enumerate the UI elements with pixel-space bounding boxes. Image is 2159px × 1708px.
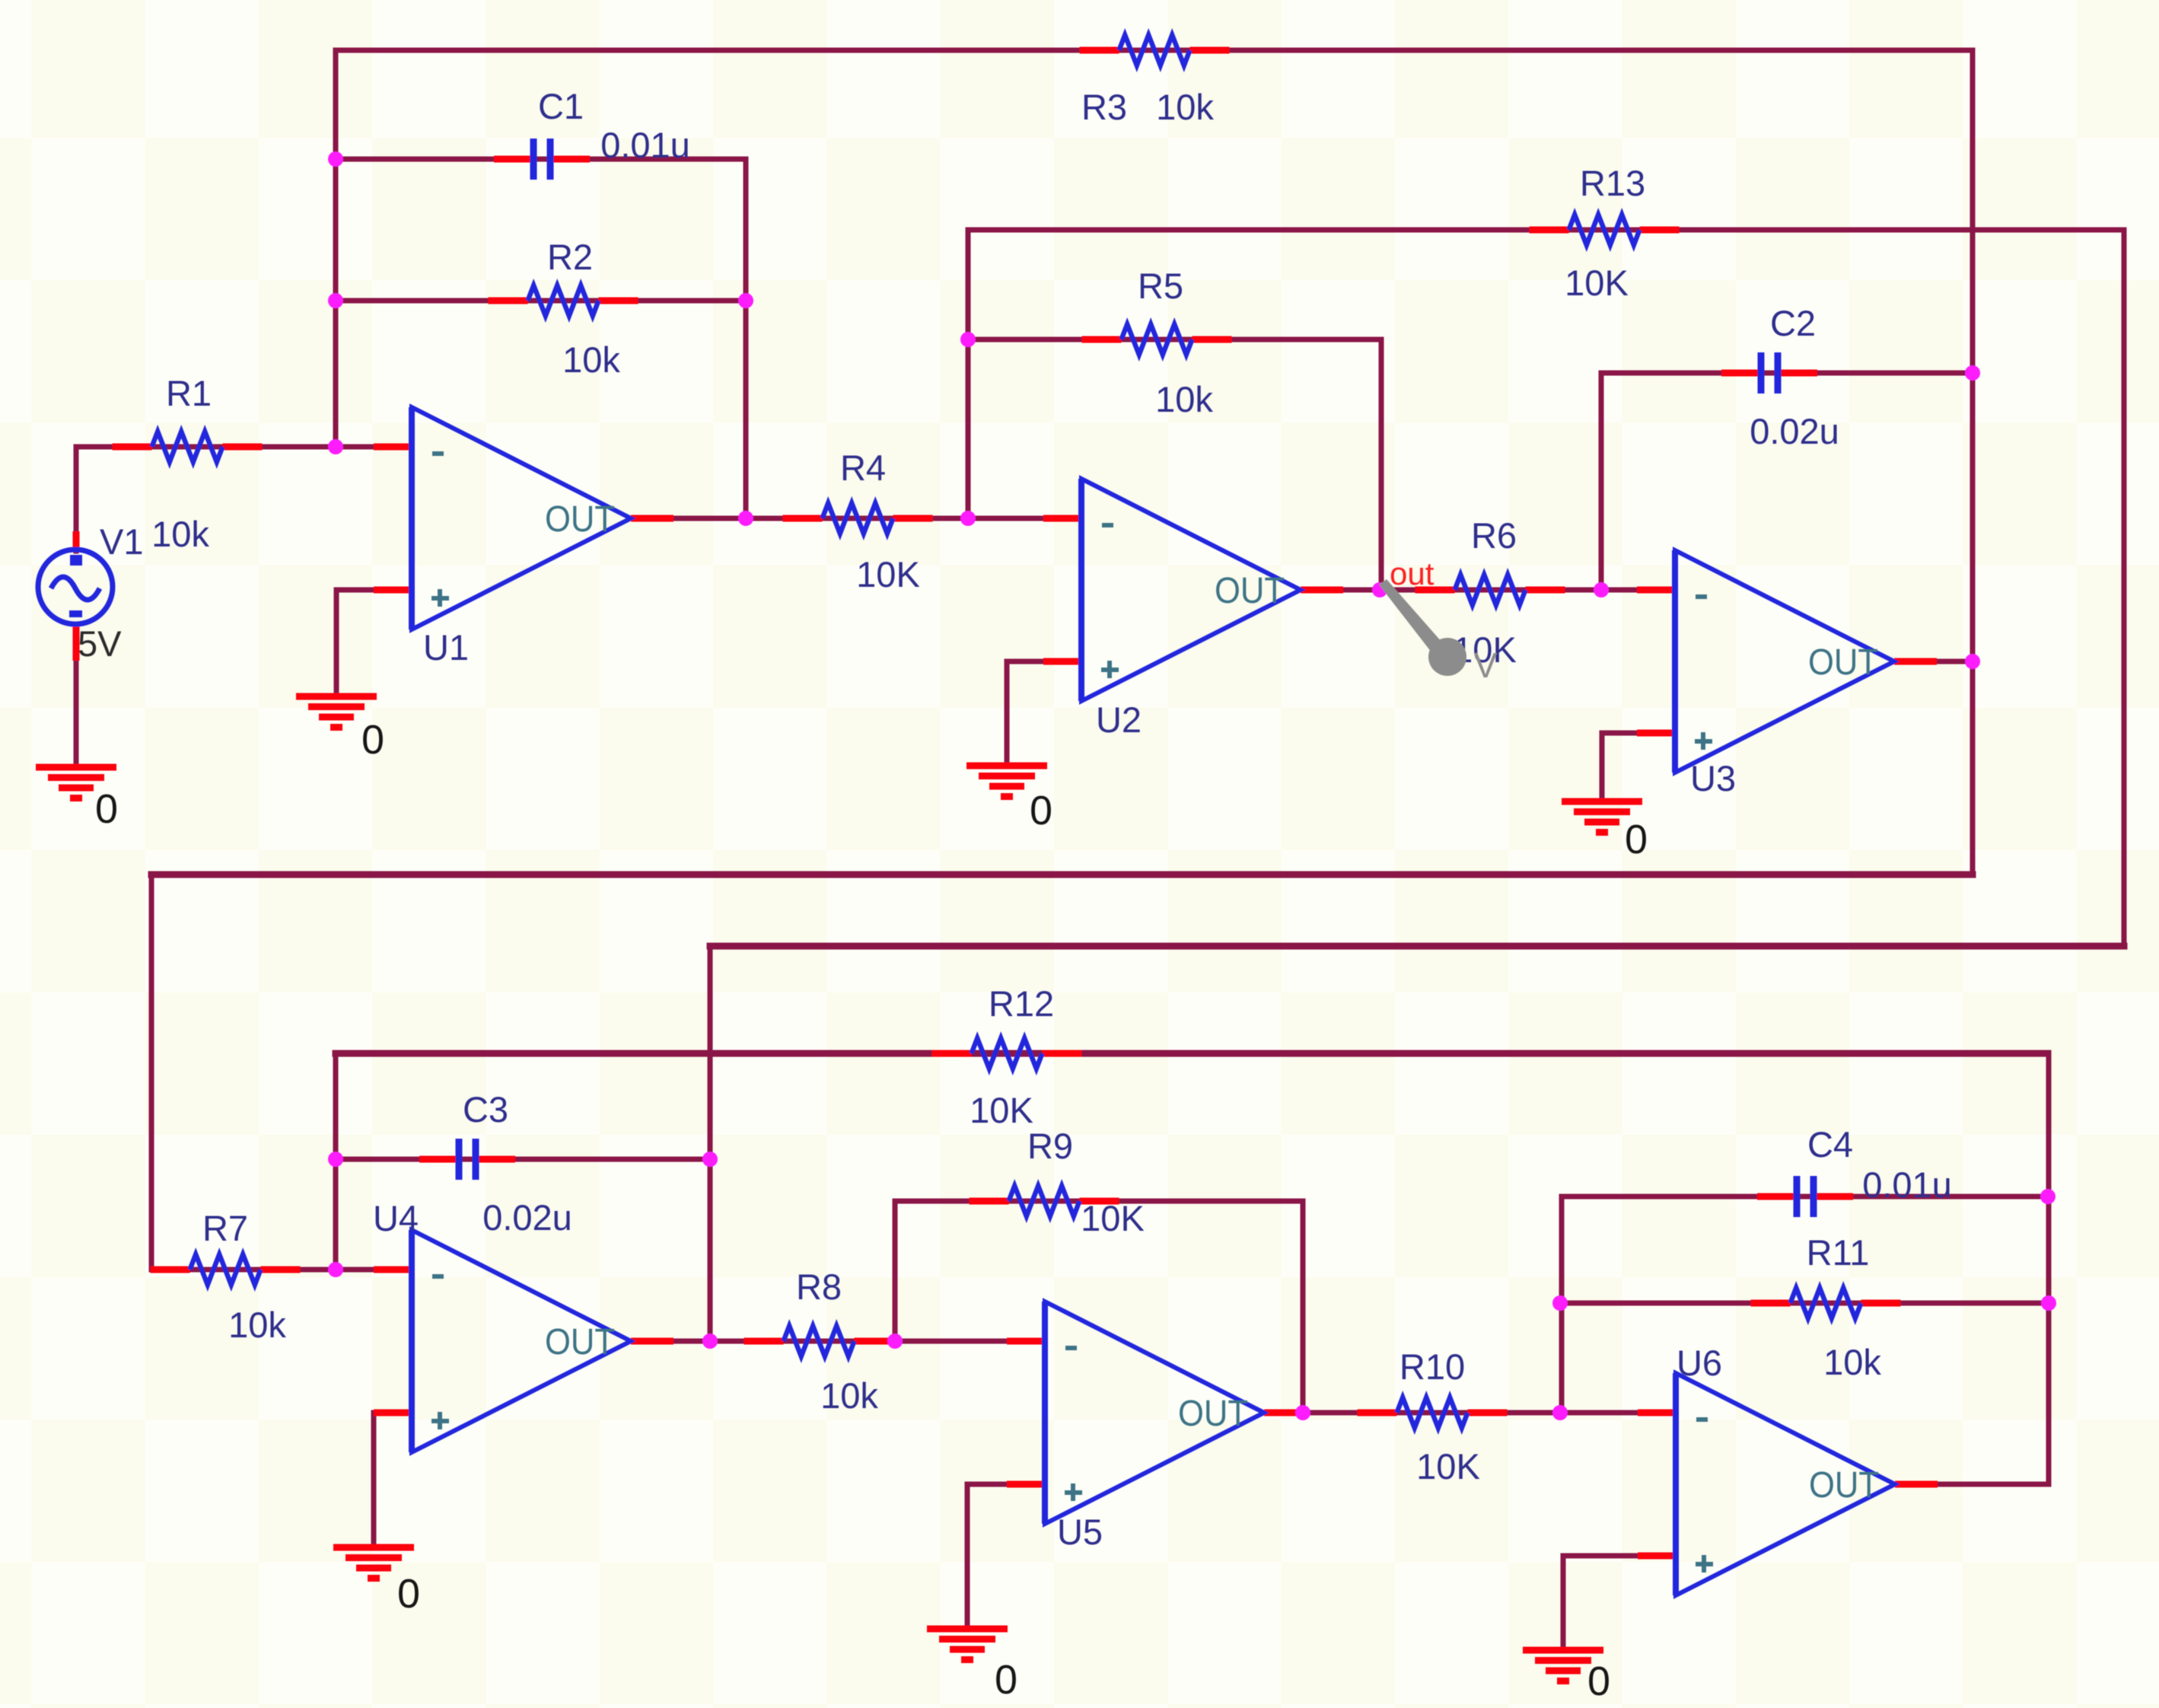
svg-text:C3: C3	[463, 1089, 508, 1130]
svg-text:U2: U2	[1096, 699, 1142, 740]
wire R9 right vertical	[1301, 1201, 1306, 1413]
wire wire1 left vertical	[149, 875, 154, 1270]
wire R9 left vertical	[893, 1201, 898, 1341]
U3 inverting input stub	[1637, 587, 1675, 594]
junction U5 output	[1295, 1405, 1310, 1420]
wire U5 plus wire	[967, 1482, 1045, 1487]
R1 pin 2 stub	[223, 444, 263, 451]
svg-text:0.01u: 0.01u	[600, 125, 690, 165]
V1 plus pin stub	[73, 531, 80, 551]
svg-text:R11: R11	[1807, 1232, 1870, 1273]
C2 pin 2 stub	[1779, 370, 1817, 377]
junction U3 output	[1965, 654, 1980, 669]
U4 non-inverting input stub	[374, 1410, 412, 1416]
R8 pin 2 stub	[855, 1338, 894, 1345]
U2 inverting input stub	[1043, 515, 1081, 522]
R2 pin 1 stub	[489, 298, 528, 304]
resistor R5	[1122, 324, 1193, 355]
svg-text:R5: R5	[1138, 266, 1183, 306]
svg-text:R12: R12	[989, 983, 1054, 1024]
capacitor C3	[459, 1139, 476, 1180]
junction U4 output	[702, 1334, 718, 1349]
wire U4out-R8-U5 wire	[631, 1339, 1045, 1344]
svg-text:R1: R1	[166, 373, 212, 413]
svg-text:10k: 10k	[151, 514, 209, 554]
op-amp U6	[1676, 1373, 1895, 1595]
resistor R3	[1119, 35, 1190, 65]
wire R7 wire	[151, 1267, 412, 1273]
wire U5 gnd stem	[965, 1484, 970, 1629]
U5 inverting input stub	[1007, 1338, 1045, 1345]
wire U1 gnd stem	[334, 590, 339, 696]
wire R1 input wire	[76, 445, 412, 450]
ground gnd U3 plus	[1562, 801, 1642, 833]
R9 pin 1 stub	[970, 1198, 1009, 1205]
U6 non-inverting input stub	[1638, 1553, 1676, 1560]
wire R5 right vertical	[1379, 339, 1384, 590]
R7 pin 2 stub	[261, 1267, 301, 1273]
voltage source V1	[38, 550, 113, 624]
wire U1out-R4-U2 wire	[631, 516, 1081, 521]
wire right vertical C2/U3out	[1970, 50, 1976, 875]
junction R2 right	[738, 293, 753, 308]
svg-text:OUT: OUT	[1215, 571, 1285, 611]
svg-text:R2: R2	[547, 237, 593, 277]
resistor R1	[152, 432, 223, 462]
junction C4 right	[2040, 1189, 2056, 1204]
R9 pin 2 stub	[1080, 1198, 1119, 1205]
wire out wire U2-R6-U3	[1301, 588, 1675, 593]
R2 pin 2 stub	[599, 298, 638, 304]
voltage probe marker at node out	[1379, 579, 1442, 652]
junction R8 right	[887, 1334, 903, 1349]
svg-text:10k: 10k	[1823, 1342, 1881, 1382]
svg-text:U1: U1	[423, 627, 469, 668]
svg-text:C2: C2	[1770, 303, 1816, 343]
capacitor C1	[533, 139, 550, 180]
junction R11 right	[2041, 1295, 2056, 1311]
wire U1 plus wire	[336, 588, 412, 593]
wire wire2 left vertical	[708, 946, 713, 1341]
svg-text:10K: 10K	[1081, 1198, 1145, 1238]
wire U6 gnd stem	[1561, 1556, 1566, 1650]
svg-text:R4: R4	[840, 448, 886, 488]
wire long feedback wire 2	[710, 943, 2124, 950]
capacitor C4	[1797, 1176, 1813, 1217]
ground gnd U1 plus	[296, 696, 377, 728]
svg-text:C4: C4	[1807, 1124, 1853, 1165]
resistor R7	[190, 1254, 261, 1285]
wire U3 plus wire	[1602, 731, 1675, 736]
svg-text:5V: 5V	[78, 623, 122, 664]
V1 minus pin stub	[73, 624, 80, 661]
wire R12 left vertical	[333, 1053, 339, 1270]
svg-text:0: 0	[1587, 1659, 1610, 1704]
U1 inverting input stub	[374, 444, 412, 451]
svg-text:R3: R3	[1081, 87, 1127, 127]
svg-text:R6: R6	[1471, 515, 1517, 556]
svg-text:10k: 10k	[562, 339, 620, 380]
svg-text:C1: C1	[538, 86, 584, 126]
U5 non-inverting input stub	[1007, 1481, 1045, 1488]
resistor R4	[823, 503, 893, 534]
wire C1/R2 right vertical	[744, 159, 749, 518]
C3 pin 2 stub	[477, 1156, 515, 1163]
C1 pin 1 stub	[494, 156, 532, 163]
R5 pin 2 stub	[1193, 336, 1232, 343]
R13 pin 2 stub	[1640, 227, 1680, 234]
svg-text:0.01u: 0.01u	[1862, 1165, 1952, 1205]
junction R1/U1 inverting	[328, 439, 343, 454]
svg-text:10K: 10K	[1565, 263, 1629, 303]
R11 pin 2 stub	[1861, 1300, 1901, 1307]
resistor R10	[1397, 1397, 1468, 1428]
svg-text:V1: V1	[100, 521, 144, 562]
svg-text:10k: 10k	[1155, 379, 1213, 419]
junction R11 left	[1552, 1295, 1568, 1311]
U1 non-inverting input stub	[374, 587, 412, 594]
svg-text:10k: 10k	[1156, 87, 1214, 127]
R1 pin 1 stub	[113, 444, 152, 451]
junction C3 left	[328, 1152, 343, 1167]
U3 output stub	[1894, 658, 1937, 665]
svg-text:R10: R10	[1400, 1346, 1465, 1387]
resistor R11	[1791, 1288, 1861, 1318]
ground gnd U5 plus	[927, 1629, 1008, 1660]
resistor R2	[528, 285, 599, 316]
C1 pin 2 stub	[552, 156, 590, 163]
wire U6 plus wire	[1563, 1553, 1676, 1559]
U4 output stub	[631, 1338, 673, 1345]
wire long feedback wire 1	[151, 872, 1973, 878]
wire R11 wire	[1560, 1301, 2049, 1306]
junction C2 right	[1965, 365, 1980, 381]
R4 pin 1 stub	[783, 515, 823, 522]
svg-text:0: 0	[397, 1571, 420, 1617]
junction R4 right	[960, 511, 976, 526]
resistor R8	[784, 1326, 855, 1356]
wire U3 out wire	[1894, 659, 1973, 664]
svg-text:0: 0	[95, 786, 118, 832]
svg-text:10K: 10K	[970, 1090, 1033, 1130]
wire R12 wire	[336, 1050, 2048, 1057]
wire C1 wire	[336, 157, 746, 162]
C2 pin 1 stub	[1721, 370, 1759, 377]
wire R13 wire	[968, 228, 2124, 233]
svg-text:OUT: OUT	[1808, 642, 1878, 683]
U6 output stub	[1895, 1481, 1938, 1488]
R12 pin 2 stub	[1043, 1050, 1082, 1057]
ground gnd U4 plus	[333, 1547, 414, 1579]
wire R2 wire	[336, 298, 746, 304]
wire left feedback vertical	[333, 50, 339, 447]
R10 pin 1 stub	[1358, 1410, 1397, 1416]
junction U1 output	[738, 511, 753, 526]
wire C3 wire	[336, 1157, 710, 1162]
resistor R13	[1569, 215, 1640, 245]
wire U5out-R10-U6 wire	[1264, 1410, 1676, 1416]
op-amp U5	[1045, 1302, 1264, 1524]
svg-text:10k: 10k	[228, 1305, 286, 1345]
R8 pin 1 stub	[744, 1338, 784, 1345]
svg-text:10k: 10k	[820, 1375, 878, 1416]
wire R5 wire	[968, 337, 1381, 343]
wire C2 wire	[1601, 371, 1973, 376]
resistor R6	[1455, 575, 1526, 605]
svg-text:R9: R9	[1027, 1126, 1073, 1166]
U3 non-inverting input stub	[1637, 730, 1675, 737]
svg-text:OUT: OUT	[1178, 1394, 1248, 1434]
R13 pin 1 stub	[1530, 227, 1569, 234]
op-amp U1	[412, 407, 631, 629]
svg-text:10K: 10K	[1416, 1446, 1480, 1487]
svg-text:OUT: OUT	[545, 1322, 615, 1362]
svg-text:U6: U6	[1677, 1343, 1722, 1383]
ground gnd V1	[36, 767, 116, 798]
R7 pin 1 stub	[151, 1267, 190, 1273]
op-amp U2	[1081, 479, 1301, 701]
svg-text:U4: U4	[373, 1198, 419, 1238]
wire V1 top wire	[74, 447, 79, 551]
svg-text:R13: R13	[1580, 163, 1645, 203]
U1 output stub	[631, 515, 673, 522]
U4 inverting input stub	[374, 1267, 412, 1273]
svg-text:0: 0	[361, 717, 384, 763]
U6 inverting input stub	[1638, 1410, 1676, 1416]
wire U4 plus wire	[374, 1410, 412, 1416]
U2 output stub	[1301, 587, 1343, 594]
R11 pin 1 stub	[1751, 1300, 1791, 1307]
C4 pin 1 stub	[1757, 1193, 1795, 1200]
junction R5 left	[960, 332, 976, 347]
resistor R9	[1009, 1186, 1080, 1216]
svg-text:10K: 10K	[856, 554, 920, 594]
junction R2 left	[328, 293, 343, 308]
svg-text:0.02u: 0.02u	[482, 1197, 572, 1238]
svg-text:U5: U5	[1057, 1512, 1103, 1552]
svg-text:0: 0	[995, 1657, 1017, 1703]
R5 pin 1 stub	[1082, 336, 1122, 343]
svg-text:out: out	[1390, 556, 1435, 591]
C4 pin 2 stub	[1815, 1193, 1853, 1200]
wire R9 wire	[895, 1199, 1303, 1204]
R6 pin 1 stub	[1415, 587, 1455, 594]
op-amp U3	[1675, 550, 1894, 773]
wire U2 gnd stem	[1005, 661, 1010, 766]
wire R13 right vertical	[2122, 230, 2127, 946]
svg-text:U3: U3	[1690, 758, 1736, 798]
R3 pin 2 stub	[1190, 47, 1230, 54]
wire R5/R13 left vertical	[966, 230, 971, 518]
resistor R12	[972, 1038, 1043, 1069]
wire V1 bottom wire	[74, 624, 79, 767]
svg-text:R8: R8	[796, 1267, 842, 1307]
svg-text:0.02u: 0.02u	[1750, 411, 1839, 451]
U2 non-inverting input stub	[1043, 658, 1081, 665]
wire U2 plus wire	[1007, 659, 1081, 664]
junction C1 left	[328, 151, 343, 167]
junction R6 right	[1594, 582, 1609, 597]
U5 output stub	[1264, 1410, 1307, 1416]
capacitor C2	[1761, 352, 1778, 394]
R4 pin 2 stub	[893, 515, 933, 522]
wire C4 wire	[1562, 1194, 2048, 1200]
wire U4 gnd stem	[371, 1413, 377, 1547]
svg-text:V: V	[1474, 645, 1498, 685]
wire C4 left vertical	[1559, 1197, 1565, 1413]
ground gnd U2 plus	[966, 766, 1047, 797]
R3 pin 1 stub	[1080, 47, 1119, 54]
junction R10 right	[1552, 1405, 1568, 1420]
svg-text:OUT: OUT	[545, 499, 615, 540]
wire U3 gnd stem	[1600, 733, 1605, 801]
R12 pin 1 stub	[932, 1050, 972, 1057]
C3 pin 1 stub	[419, 1156, 457, 1163]
svg-text:0: 0	[1625, 817, 1648, 862]
wire U6 out wire	[1895, 1482, 2049, 1487]
svg-text:0: 0	[1030, 788, 1052, 833]
ground gnd U6 plus	[1523, 1650, 1603, 1681]
R6 pin 2 stub	[1526, 587, 1565, 594]
svg-text:R7: R7	[202, 1208, 248, 1248]
junction C3 right	[702, 1152, 718, 1167]
wire top feedback wire (R3 net)	[336, 48, 1973, 53]
wire R12/C4 right vertical	[2046, 1053, 2052, 1484]
svg-text:OUT: OUT	[1809, 1465, 1879, 1506]
R10 pin 2 stub	[1468, 1410, 1508, 1416]
junction R7/U4 inverting	[328, 1262, 343, 1277]
node out junction	[1372, 582, 1387, 597]
op-amp U4	[412, 1230, 631, 1452]
wire C2 left vertical	[1599, 373, 1604, 590]
